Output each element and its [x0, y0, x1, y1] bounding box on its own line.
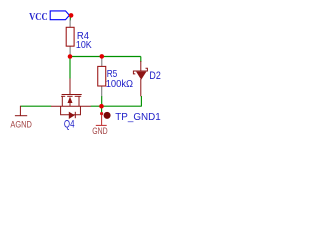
svg-text:VCC: VCC: [29, 11, 48, 23]
svg-text:GND: GND: [92, 125, 108, 136]
svg-text:D2: D2: [149, 70, 160, 82]
svg-text:TP_GND1: TP_GND1: [115, 112, 161, 123]
svg-text:10K: 10K: [76, 40, 92, 51]
svg-text:100kΩ: 100kΩ: [106, 79, 134, 90]
svg-text:AGND: AGND: [10, 119, 32, 130]
svg-text:Q4: Q4: [64, 118, 75, 130]
